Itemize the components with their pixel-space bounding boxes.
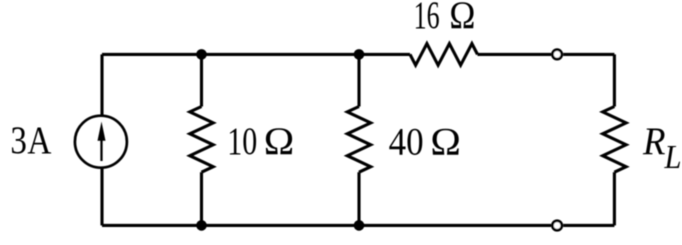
wire: left side upper segment	[100, 54, 103, 114]
wire: 10-ohm branch upper	[200, 54, 203, 106]
wire: 16-ohm to top terminal	[478, 53, 552, 56]
svg-text:Ω: Ω	[430, 121, 461, 164]
wire: left side lower segment	[100, 169, 103, 226]
resistor 40 ohm (vertical zigzag)	[347, 107, 370, 173]
svg-text:3: 3	[10, 119, 27, 162]
node: bottom junction of 10-ohm branch	[196, 220, 207, 231]
svg-text:R: R	[642, 120, 666, 163]
resistor 10 ohm (vertical zigzag)	[190, 107, 213, 173]
node: top junction of 40-ohm branch	[354, 49, 365, 60]
wire: 40-ohm branch lower	[357, 172, 360, 225]
wire: bottom terminal to bottom-left corner	[102, 224, 551, 227]
svg-text:A: A	[27, 119, 51, 162]
wire top-left: left node to 16-ohm resistor	[102, 53, 410, 56]
current source arrow	[98, 122, 106, 162]
resistor 16 ohm (horizontal zigzag)	[410, 44, 478, 66]
node: bottom junction of 40-ohm branch	[354, 220, 365, 231]
current source I (3 A), circle	[75, 116, 127, 168]
wire: 40-ohm branch upper	[357, 54, 360, 106]
svg-text:Ω: Ω	[264, 120, 295, 163]
wire: top terminal to top-right corner	[563, 53, 614, 56]
wire: right side lower segment	[613, 172, 616, 225]
wire: 10-ohm branch lower	[200, 172, 203, 225]
terminal a (open circle, top)	[552, 50, 562, 60]
svg-text:L: L	[664, 139, 682, 176]
svg-text:40: 40	[389, 121, 424, 164]
node: top junction of 10-ohm branch	[196, 49, 207, 60]
svg-text:10: 10	[227, 120, 257, 163]
resistor RL (vertical zigzag)	[603, 107, 626, 173]
wire: right side upper segment	[613, 54, 616, 106]
terminal b (open circle, bottom)	[552, 221, 562, 231]
svg-text:Ω: Ω	[449, 0, 475, 37]
wire: bottom-right corner to bottom terminal	[563, 224, 614, 227]
svg-text:16: 16	[414, 0, 440, 37]
